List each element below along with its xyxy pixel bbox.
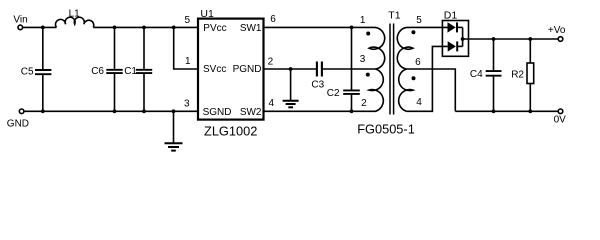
svg-text:SGND: SGND [203, 107, 232, 118]
wire C3 to T1 pin3 [323, 68, 376, 70]
capacitor C5 [35, 27, 51, 111]
svg-text:4: 4 [416, 97, 422, 108]
svg-text:3: 3 [360, 54, 366, 65]
diode D1a [448, 22, 463, 32]
svg-text:3: 3 [184, 98, 190, 109]
node junction C2-top [350, 26, 354, 30]
svg-text:2: 2 [268, 56, 274, 67]
transformer T1 primary winding [369, 27, 385, 111]
svg-text:SW1: SW1 [240, 23, 262, 34]
resistor R2 [527, 39, 534, 111]
capacitor C6 [106, 27, 122, 111]
wire T1 pin4 to D1 bottom diode [407, 46, 448, 111]
diode D1b [448, 41, 463, 51]
svg-text:SVcc: SVcc [203, 64, 226, 75]
svg-text:6: 6 [270, 14, 276, 25]
svg-text:C6: C6 [91, 66, 104, 77]
inductor L1 [56, 17, 94, 27]
svg-text:T1: T1 [388, 9, 400, 21]
node junction C1-top [142, 26, 146, 30]
wire output rail to +Vo [463, 38, 559, 40]
svg-text:SW2: SW2 [240, 107, 262, 118]
op-amp U1 box [198, 19, 264, 120]
svg-text:5: 5 [416, 15, 422, 26]
node junction SGND-ground [172, 109, 176, 113]
wire L1 to U1 pin5 [93, 26, 198, 28]
svg-text:U1: U1 [200, 8, 214, 20]
capacitor C1 [136, 27, 152, 111]
svg-text:PVcc: PVcc [203, 23, 226, 34]
wire 0V rail [455, 110, 558, 112]
node junction R2-top [528, 37, 532, 41]
svg-text:1: 1 [360, 15, 366, 26]
node polarity dot primary-bottom [366, 73, 370, 77]
node polarity dot secondary-top [411, 30, 415, 34]
node junction pin1-stub-top [172, 26, 176, 30]
node polarity dot secondary-bottom [412, 76, 416, 80]
svg-text:R2: R2 [511, 70, 524, 81]
svg-text:C3: C3 [311, 80, 324, 91]
terminal GND [19, 109, 24, 114]
svg-text:Vin: Vin [13, 15, 27, 26]
wire pin1 stub to SVcc [174, 27, 198, 69]
node junction C1-bottom [142, 109, 146, 113]
node junction C6-top [113, 26, 117, 30]
svg-text:C2: C2 [327, 88, 340, 99]
wire SW2 to T1 pin2 [264, 110, 377, 112]
svg-text:GND: GND [7, 119, 29, 130]
node junction C5-bottom [41, 109, 45, 113]
svg-text:0V: 0V [554, 115, 567, 126]
svg-text:ZLG1002: ZLG1002 [204, 123, 257, 138]
capacitor C4 [486, 39, 502, 111]
wire Vin to L1 [23, 26, 57, 28]
terminal +Vo [558, 37, 563, 42]
svg-text:C5: C5 [21, 66, 34, 77]
svg-text:L1: L1 [69, 8, 81, 19]
node junction C2-bottom [350, 109, 354, 113]
terminal Vin [18, 25, 23, 30]
ground SGND-rail [165, 111, 183, 150]
wire T1 pin6 to 0V rail [407, 69, 456, 111]
wire SW1 to T1 pin1 [264, 26, 377, 28]
ground PGND [283, 69, 299, 107]
terminal 0V [558, 109, 563, 114]
wire D1 common cathode [462, 27, 464, 46]
node junction C6-bottom [113, 109, 117, 113]
svg-text:6: 6 [415, 57, 421, 68]
svg-text:4: 4 [269, 98, 275, 109]
wire T1 pin5 to D1 [407, 26, 448, 28]
node junction R2-bottom [528, 109, 532, 113]
svg-text:5: 5 [184, 15, 190, 26]
svg-text:C4: C4 [470, 69, 483, 80]
node junction C4-top [492, 37, 496, 41]
transformer T1 core [390, 24, 394, 115]
wire PGND to C3 [264, 68, 317, 70]
node polarity dot primary-top [366, 32, 370, 36]
capacitor C3 [317, 62, 322, 77]
svg-text:D1: D1 [444, 10, 458, 22]
node junction PGND-ground [289, 67, 293, 71]
svg-text:2: 2 [361, 98, 367, 109]
node junction D1-output [461, 37, 465, 41]
svg-text:PGND: PGND [233, 64, 262, 75]
node junction C4-bottom [492, 109, 496, 113]
diode D1 package box [442, 21, 468, 57]
svg-text:+Vo: +Vo [548, 25, 566, 36]
svg-text:1: 1 [185, 56, 191, 67]
node junction C5-top [41, 26, 45, 30]
svg-text:C1: C1 [124, 66, 137, 77]
transformer T1 secondary winding [397, 27, 413, 111]
svg-text:FG0505-1: FG0505-1 [357, 121, 415, 136]
capacitor C2 [343, 27, 360, 111]
wire GND rail [24, 110, 198, 112]
